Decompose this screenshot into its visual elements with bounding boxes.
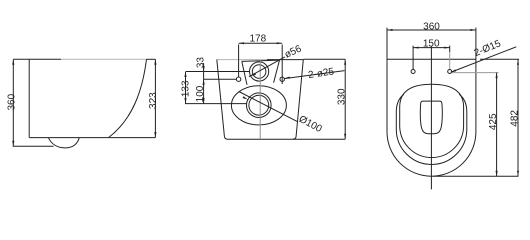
svg-text:330: 330 [336, 88, 347, 105]
svg-text:133: 133 [180, 80, 191, 97]
svg-text:360: 360 [6, 93, 17, 110]
svg-text:323: 323 [148, 92, 159, 109]
svg-text:178: 178 [249, 33, 266, 44]
svg-text:33: 33 [196, 57, 207, 69]
svg-text:482: 482 [509, 110, 520, 127]
svg-text:150: 150 [423, 38, 440, 49]
svg-text:100: 100 [195, 85, 206, 102]
svg-text:425: 425 [488, 113, 499, 130]
svg-text:360: 360 [423, 21, 440, 32]
